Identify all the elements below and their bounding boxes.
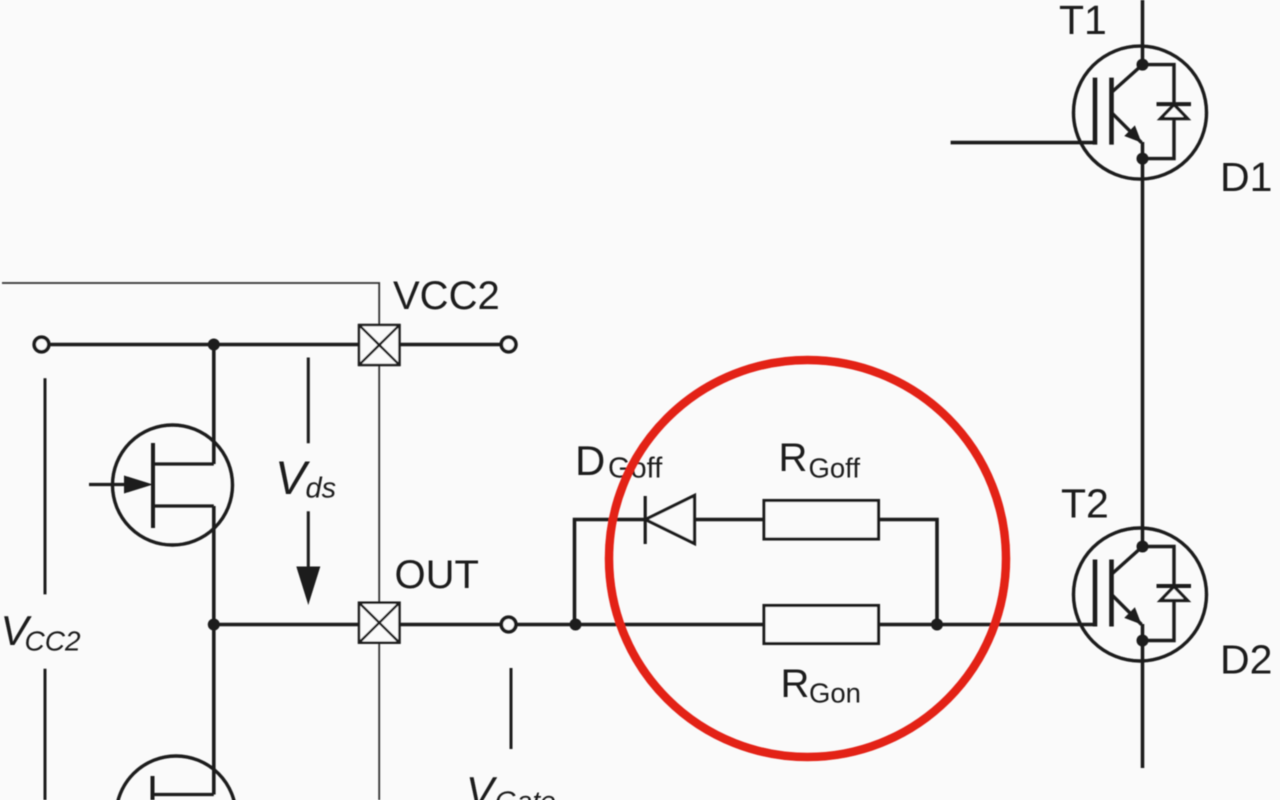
svg-text:CC2: CC2 — [25, 625, 81, 656]
svg-text:Goff: Goff — [809, 453, 861, 484]
svg-text:R: R — [781, 662, 810, 706]
svg-text:D2: D2 — [1220, 637, 1272, 683]
svg-text:T1: T1 — [1059, 0, 1107, 43]
svg-text:Gon: Gon — [809, 678, 861, 709]
svg-text:T2: T2 — [1061, 481, 1109, 527]
svg-text:VCC2: VCC2 — [393, 274, 500, 318]
svg-text:OUT: OUT — [395, 553, 479, 597]
svg-text:D: D — [575, 437, 605, 484]
svg-text:D1: D1 — [1220, 154, 1272, 200]
svg-text:Gate: Gate — [495, 786, 556, 800]
svg-text:ds: ds — [306, 473, 337, 505]
svg-text:R: R — [779, 436, 808, 480]
svg-text:V: V — [466, 768, 498, 800]
